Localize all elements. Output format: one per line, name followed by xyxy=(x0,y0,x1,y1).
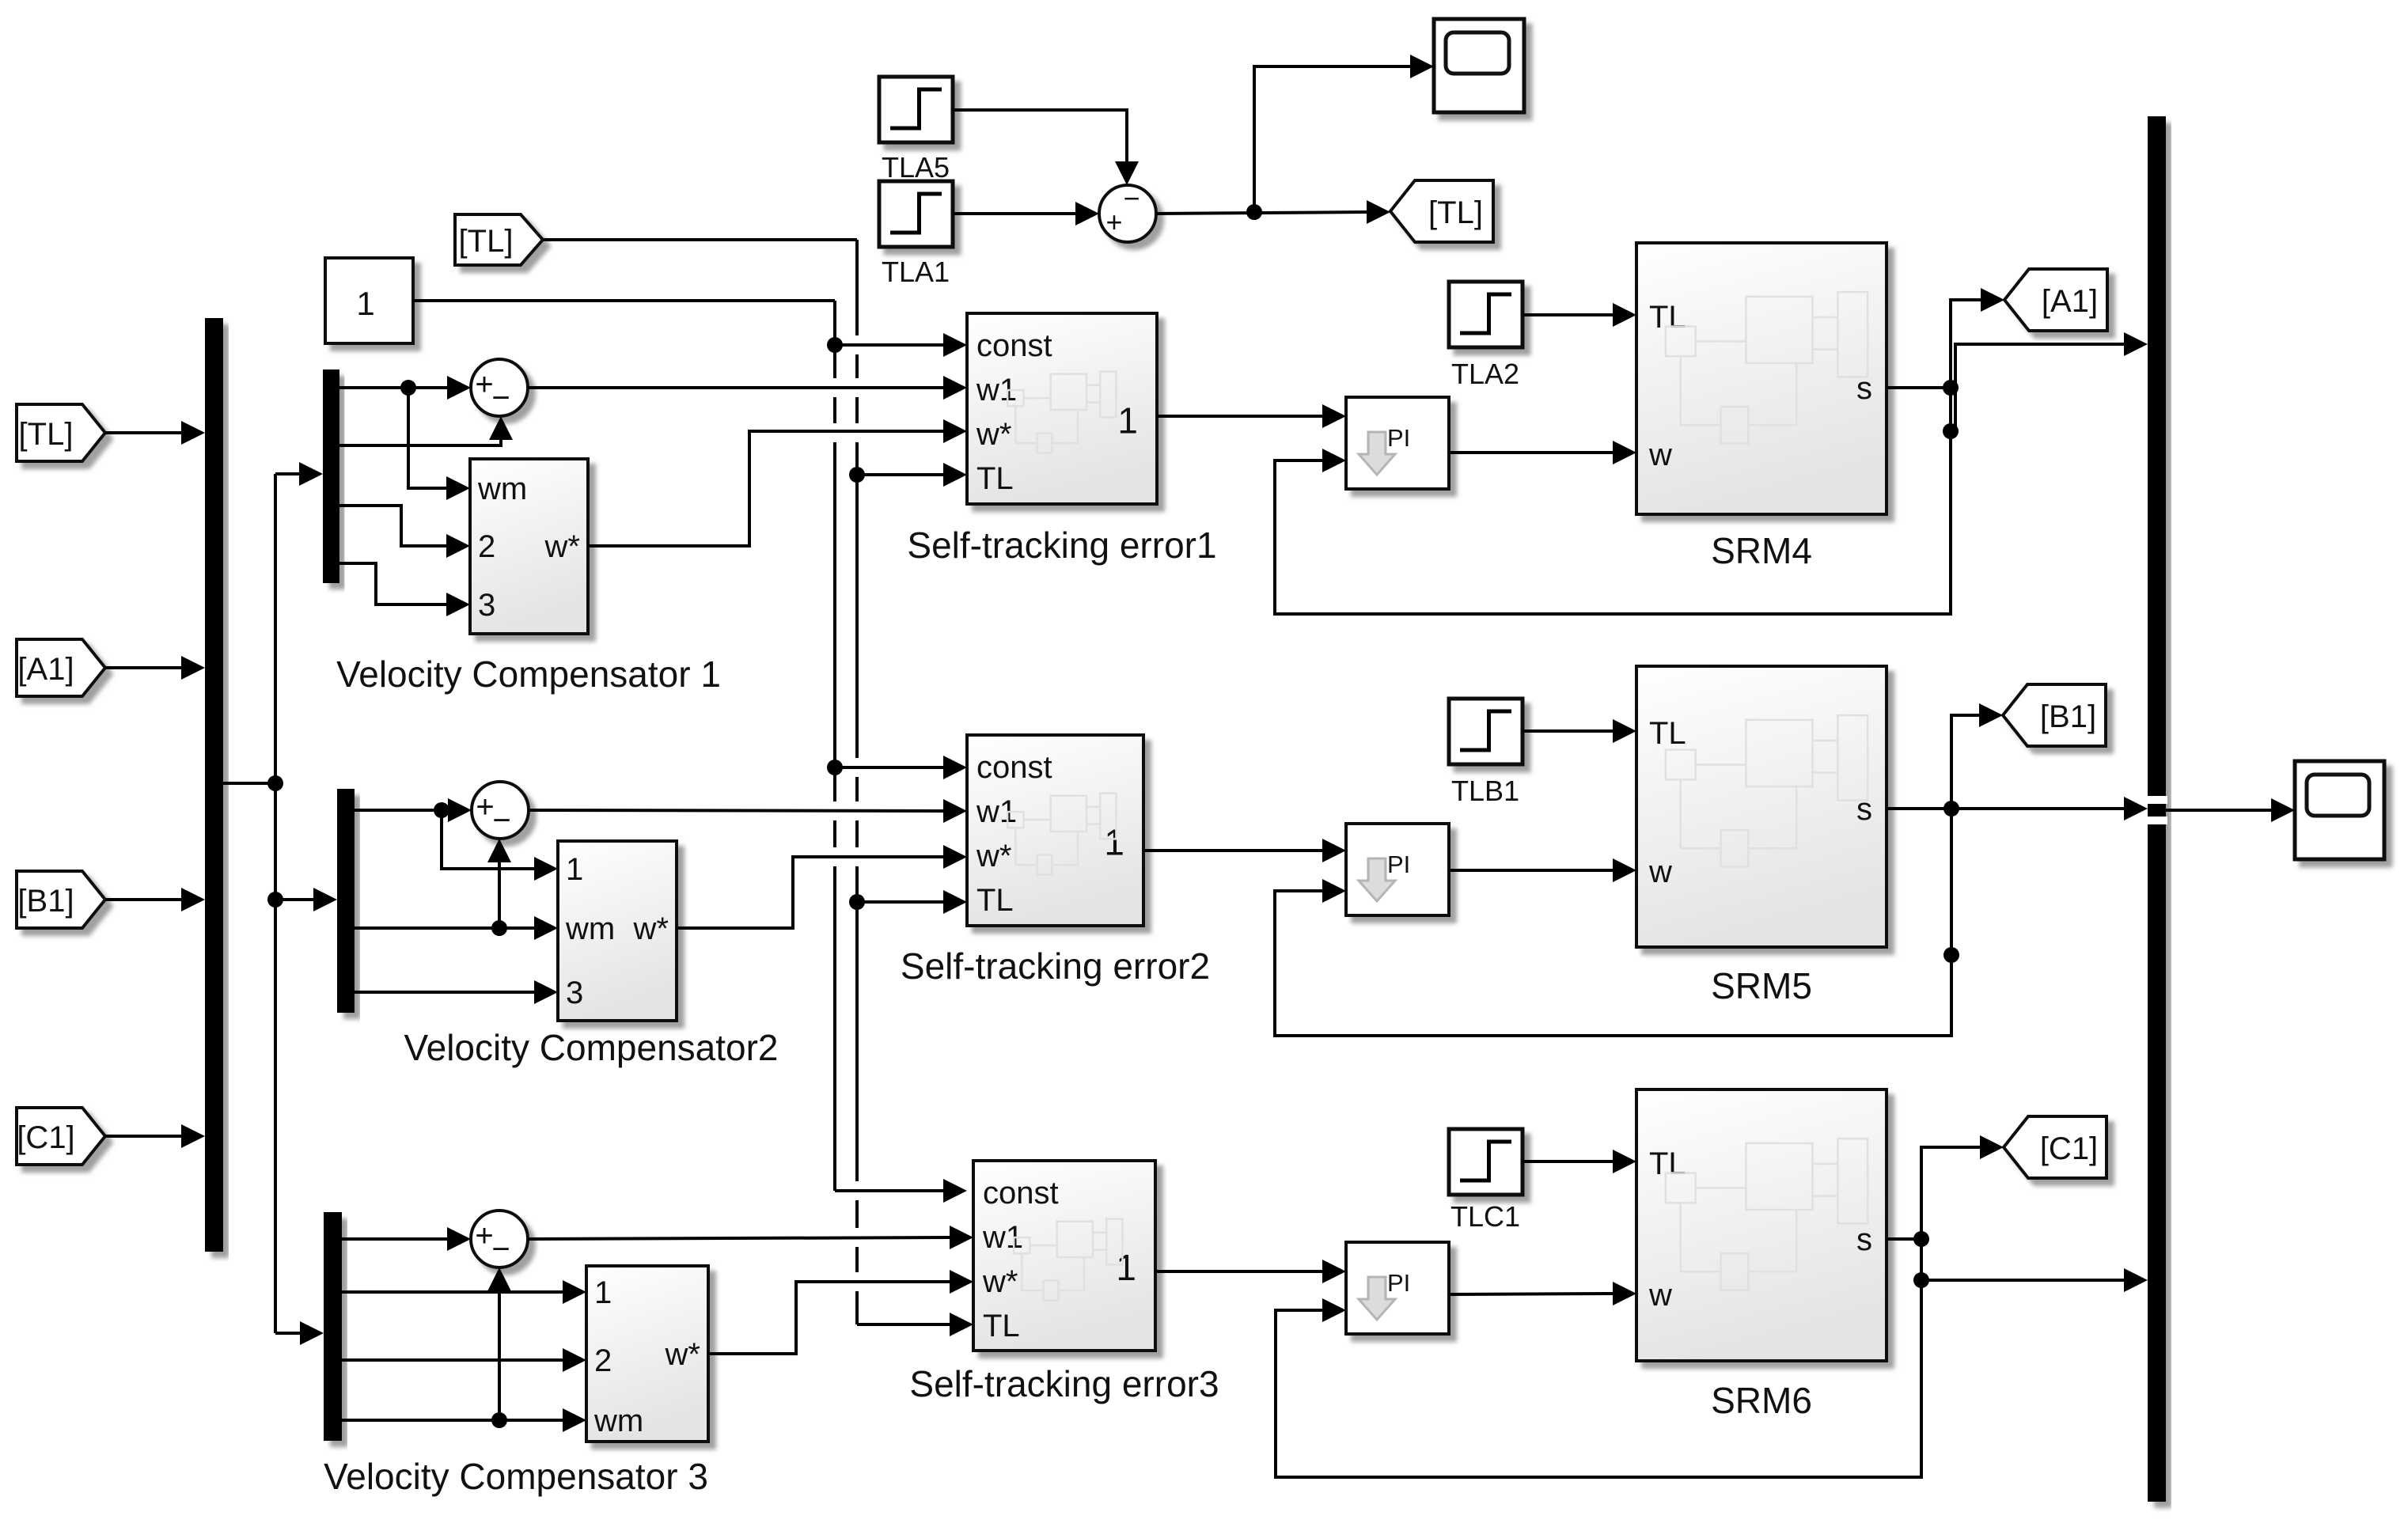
svg-text:1: 1 xyxy=(1104,822,1124,863)
svg-text:const: const xyxy=(976,750,1052,785)
svg-text:−: − xyxy=(492,803,510,838)
svg-text:TLC1: TLC1 xyxy=(1450,1200,1520,1233)
svg-text:+: + xyxy=(1105,206,1122,238)
svg-text:1: 1 xyxy=(356,285,374,322)
svg-text:1: 1 xyxy=(594,1275,612,1310)
svg-text:TLB1: TLB1 xyxy=(1451,775,1519,807)
svg-text:[B1]: [B1] xyxy=(17,884,74,919)
svg-text:[A1]: [A1] xyxy=(2042,284,2098,319)
svg-text:TL: TL xyxy=(1649,1146,1686,1181)
svg-text:Velocity Compensator 3: Velocity Compensator 3 xyxy=(324,1456,708,1497)
svg-text:TL: TL xyxy=(1649,300,1686,335)
svg-text:[C1]: [C1] xyxy=(17,1120,74,1155)
svg-text:3: 3 xyxy=(566,976,583,1010)
svg-text:Velocity Compensator 1: Velocity Compensator 1 xyxy=(336,654,721,695)
svg-text:TL: TL xyxy=(983,1309,1020,1343)
svg-text:s: s xyxy=(1856,792,1872,827)
svg-text:Self-tracking error1: Self-tracking error1 xyxy=(907,525,1216,566)
svg-text:TL: TL xyxy=(1649,716,1686,751)
svg-text:[C1]: [C1] xyxy=(2040,1131,2098,1166)
svg-text:wm: wm xyxy=(565,911,615,946)
svg-text:1: 1 xyxy=(566,852,583,887)
svg-text:wm: wm xyxy=(593,1404,643,1438)
svg-text:w*: w* xyxy=(976,839,1011,873)
svg-text:w: w xyxy=(1648,438,1672,472)
svg-text:w*: w* xyxy=(982,1264,1018,1299)
svg-text:w: w xyxy=(1648,854,1672,889)
svg-text:wm: wm xyxy=(477,472,527,506)
svg-text:[TL]: [TL] xyxy=(1428,195,1483,230)
svg-text:−: − xyxy=(1123,182,1140,214)
svg-text:Self-tracking error3: Self-tracking error3 xyxy=(909,1363,1219,1404)
svg-text:1: 1 xyxy=(1116,1247,1136,1288)
svg-text:2: 2 xyxy=(594,1343,612,1378)
svg-text:SRM5: SRM5 xyxy=(1711,965,1812,1006)
svg-text:Velocity Compensator2: Velocity Compensator2 xyxy=(404,1027,778,1068)
svg-text:PI: PI xyxy=(1387,851,1410,878)
svg-text:SRM6: SRM6 xyxy=(1711,1380,1812,1421)
svg-text:2: 2 xyxy=(478,529,495,564)
svg-text:Self-tracking error2: Self-tracking error2 xyxy=(901,945,1210,987)
svg-text:1: 1 xyxy=(1117,400,1138,441)
svg-text:w*: w* xyxy=(544,529,580,564)
svg-text:TLA5: TLA5 xyxy=(882,151,950,184)
svg-text:PI: PI xyxy=(1387,1269,1410,1297)
svg-text:3: 3 xyxy=(478,588,495,623)
svg-text:−: − xyxy=(491,381,510,415)
svg-text:−: − xyxy=(491,1232,510,1267)
svg-text:TLA2: TLA2 xyxy=(1451,358,1519,390)
svg-text:[B1]: [B1] xyxy=(2040,699,2096,734)
svg-text:s: s xyxy=(1856,1222,1872,1257)
svg-text:TLA1: TLA1 xyxy=(882,256,950,288)
svg-text:+: + xyxy=(476,790,494,824)
svg-text:w*: w* xyxy=(665,1337,700,1372)
svg-text:SRM4: SRM4 xyxy=(1711,530,1812,571)
svg-text:w*: w* xyxy=(633,911,669,946)
svg-text:+: + xyxy=(475,1218,493,1253)
svg-text:[TL]: [TL] xyxy=(19,417,74,452)
svg-text:const: const xyxy=(976,328,1052,363)
svg-text:const: const xyxy=(983,1176,1059,1211)
svg-text:TL: TL xyxy=(976,883,1014,918)
svg-text:w*: w* xyxy=(976,417,1011,452)
svg-text:[A1]: [A1] xyxy=(17,652,74,687)
svg-text:[TL]: [TL] xyxy=(459,224,514,259)
svg-text:PI: PI xyxy=(1387,424,1410,452)
svg-text:TL: TL xyxy=(976,461,1014,496)
svg-text:w: w xyxy=(1648,1278,1672,1313)
svg-text:+: + xyxy=(475,367,493,402)
